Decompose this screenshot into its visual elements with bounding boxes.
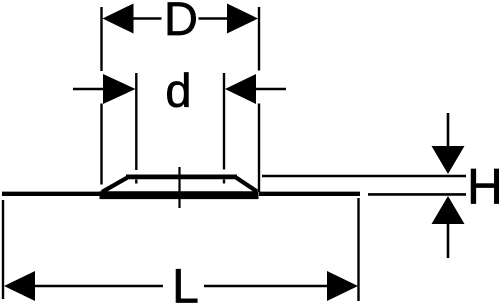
dimension d: right arrowhead: [225, 74, 256, 104]
dimension H: upper leader line: [447, 113, 450, 147]
dimension d: left arrowhead: [103, 74, 136, 104]
svg-text:D: D: [164, 0, 198, 45]
dimension H: top reference line: [262, 175, 466, 178]
dimension L: left dimension line segment: [35, 285, 163, 287]
dimension D: left extension line (upper segment): [100, 7, 102, 71]
dimension d: left leader line: [73, 88, 105, 90]
gasket right slope: [236, 178, 257, 192]
dimension d: left extension line (dash below gasket top edge): [135, 180, 137, 184]
gasket center line: [178, 167, 180, 208]
gasket top edge: [126, 175, 237, 180]
dimension d: right extension line: [223, 73, 225, 170]
dimension D: left extension line (lower segment): [100, 104, 102, 185]
gasket bottom edge (thick): [100, 191, 259, 199]
dimension H: lower leader line: [447, 223, 450, 258]
dimension D: right extension line (lower segment): [258, 104, 260, 193]
pipe axis line left: [2, 192, 101, 196]
svg-text:L: L: [172, 261, 199, 305]
dimension D: left dimension line segment: [133, 17, 162, 19]
dimension L: right dimension line segment: [204, 285, 328, 287]
dimension D: right dimension line segment: [199, 17, 229, 19]
dimension d: left extension line: [135, 73, 137, 170]
dimension H: down arrowhead: [432, 146, 465, 174]
dimension D: right arrowhead: [227, 4, 258, 34]
dimension L: right extension line: [357, 198, 359, 301]
svg-text:H: H: [467, 159, 499, 215]
pipe axis line right: [259, 192, 360, 196]
dimension H: bottom reference line: [368, 193, 466, 196]
dimension L: left arrowhead: [4, 271, 35, 301]
dimension L: left extension line: [2, 200, 4, 299]
dimension L: right arrowhead: [327, 271, 358, 301]
dimension d: right leader line: [255, 88, 286, 90]
dimension d: right extension line (dash below gasket top edge): [223, 180, 225, 184]
svg-text:d: d: [165, 64, 191, 117]
dimension H: up arrowhead: [432, 196, 465, 224]
gasket left slope: [102, 178, 128, 193]
dimension D: right extension line (upper segment): [258, 7, 260, 71]
dimension D: left arrowhead: [103, 4, 134, 34]
